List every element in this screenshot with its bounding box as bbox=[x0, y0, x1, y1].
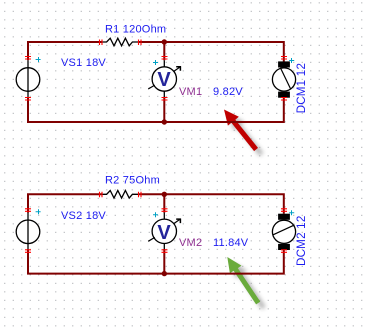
annotation: green arrow bbox=[227, 257, 260, 304]
pin markers: VS2 top pin bbox=[25, 209, 31, 212]
polarity + of VM2 bbox=[153, 212, 158, 217]
pin markers: VM2 top pin bbox=[162, 209, 168, 212]
node: junction at R1/VM1 top bbox=[162, 39, 167, 44]
node: junction at VM2 bottom bbox=[162, 271, 167, 276]
pin markers: VM1 top pin bbox=[162, 57, 168, 60]
svg-text:DCM2 12: DCM2 12 bbox=[295, 215, 308, 266]
pin markers: VS1 bottom pin bbox=[25, 98, 31, 101]
pin markers: R2 right pin bbox=[139, 192, 142, 198]
wire: junction to VM1 top bbox=[163, 42, 165, 60]
polarity + of DCM2 bbox=[289, 210, 294, 215]
wire: VM1 bottom to bottom run bbox=[163, 97, 165, 122]
pin markers: DCM2 bottom pin bbox=[281, 250, 287, 253]
svg-text:R2 75Ohm: R2 75Ohm bbox=[105, 175, 160, 187]
pin markers: DCM1 bottom pin bbox=[281, 98, 287, 101]
annotation: green arrow shadow bbox=[233, 262, 266, 309]
svg-text:V: V bbox=[157, 69, 171, 91]
polarity + of VM1 bbox=[153, 60, 158, 65]
polarity + of VS1 bbox=[36, 57, 41, 62]
svg-text:VM2: VM2 bbox=[179, 237, 202, 249]
svg-text:DCM1 12: DCM1 12 bbox=[295, 63, 308, 114]
voltmeter VM2 bbox=[148, 213, 181, 250]
pin markers: DCM1 top pin bbox=[281, 57, 287, 60]
pin markers: DCM2 top pin bbox=[281, 209, 287, 212]
svg-text:R1 120Ohm: R1 120Ohm bbox=[105, 24, 166, 36]
svg-text:11.84V: 11.84V bbox=[213, 237, 249, 249]
wire: VS2 bottom, bottom run, DCM2 bottom bbox=[28, 249, 284, 273]
pin markers: R1 left pin bbox=[100, 40, 103, 46]
svg-text:VS1 18V: VS1 18V bbox=[61, 57, 106, 69]
wire: bottom circuit top run from R2 to corner down to DCM2 bbox=[139, 194, 284, 214]
wire: bottom circuit top-left segment bbox=[28, 194, 102, 212]
annotation: red arrow shadow bbox=[230, 115, 264, 157]
resistor R1 bbox=[102, 38, 139, 46]
pin markers: VM1 bottom pin bbox=[162, 98, 168, 101]
svg-text:VS2 18V: VS2 18V bbox=[61, 210, 106, 222]
annotation: red arrow bbox=[224, 110, 258, 152]
polarity + of VS2 bbox=[36, 209, 41, 214]
voltmeter VM1 bbox=[148, 60, 181, 97]
dc motor DCM1 bbox=[272, 61, 295, 97]
pin markers: VS1 top pin bbox=[25, 57, 31, 60]
svg-text:9.82V: 9.82V bbox=[213, 86, 243, 98]
wire: junction to VM2 top bbox=[163, 194, 165, 212]
wire: VM2 bottom to bottom run bbox=[163, 249, 165, 274]
svg-text:V: V bbox=[157, 222, 171, 244]
voltage source VS1 bbox=[16, 60, 40, 97]
wire: top-left segment (left vertical + top run to R1) bbox=[28, 42, 102, 60]
svg-text:VM1: VM1 bbox=[179, 86, 202, 98]
wire: top run from R1 to top-right corner down to DCM1 bbox=[139, 42, 284, 62]
wire: VS1 bottom, bottom run, DCM1 bottom bbox=[28, 97, 284, 122]
dc motor DCM2 bbox=[272, 214, 295, 250]
voltage source VS2 bbox=[16, 213, 40, 250]
node: junction at R2/VM2 top bbox=[162, 192, 167, 197]
pin markers: VM2 bottom pin bbox=[162, 250, 168, 253]
polarity + of DCM1 bbox=[289, 58, 294, 63]
resistor R2 bbox=[102, 191, 139, 199]
node: junction at VM1 bottom bbox=[162, 119, 167, 124]
pin markers: R2 left pin bbox=[100, 192, 103, 198]
pin markers: VS2 bottom pin bbox=[25, 250, 31, 253]
pin markers: R1 right pin bbox=[139, 40, 142, 46]
